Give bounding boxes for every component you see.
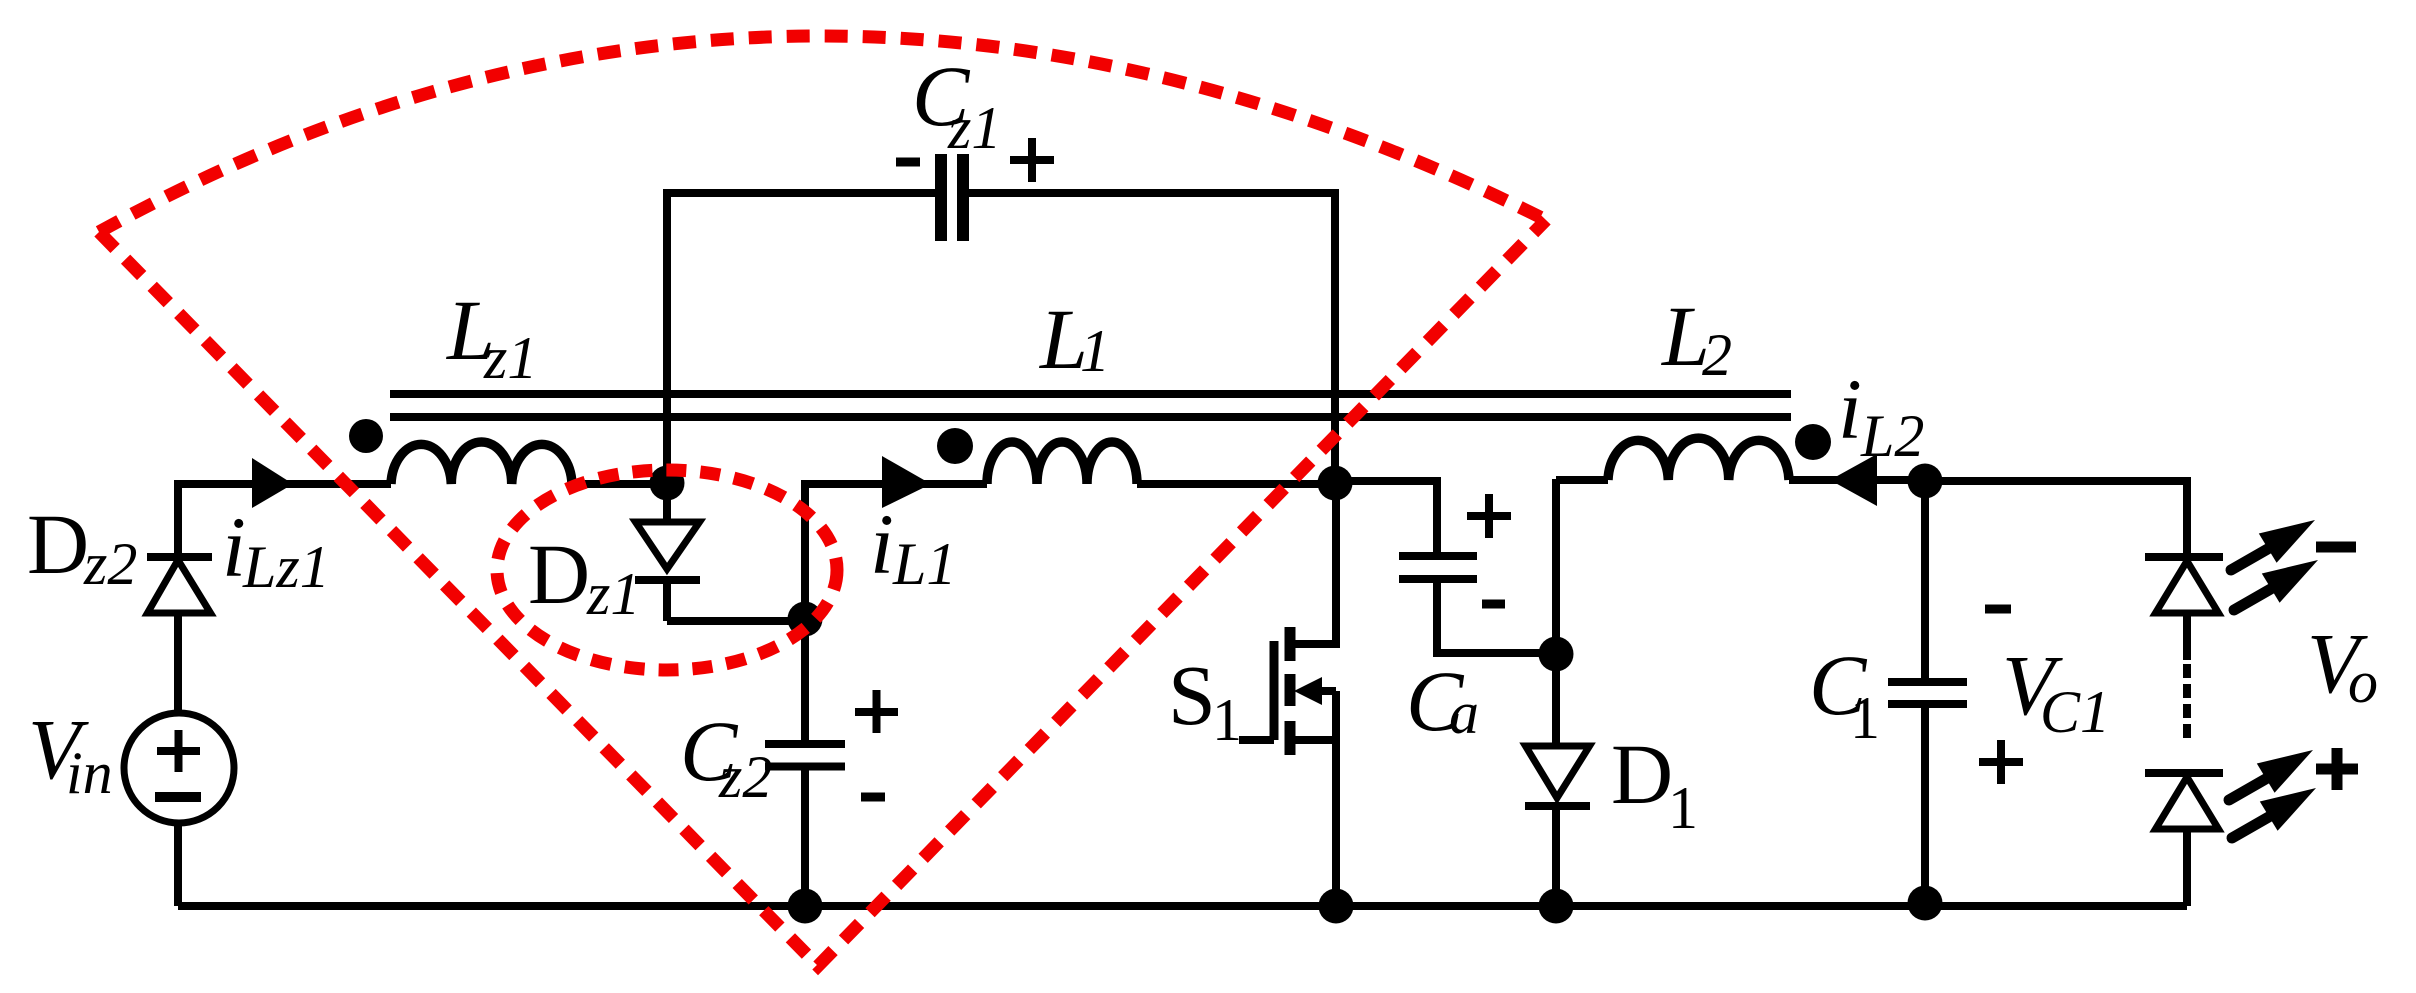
minus sign Ca (1482, 600, 1505, 609)
label iL1 (870, 496, 956, 597)
capacitor Ca (1399, 556, 1556, 653)
dot L1 polarity (937, 428, 973, 464)
inductor L2 winding (1608, 438, 1789, 480)
svg-text:1: 1 (1080, 318, 1110, 384)
plus sign Cz2 (855, 690, 898, 733)
label Dz1 (528, 526, 640, 627)
label Ca (1406, 653, 1479, 749)
node B junction dot (1318, 466, 1353, 501)
node Cz2 bottom junction dot (788, 889, 823, 924)
label Vin (28, 701, 113, 806)
label D1 (1611, 726, 1698, 841)
source Vin (124, 713, 234, 906)
svg-text:i: i (1838, 361, 1862, 457)
node D1 bottom junction dot (1539, 889, 1574, 924)
LED D_led1 (2145, 557, 2223, 660)
red dashed fan V lines (99, 220, 1546, 966)
svg-text:in: in (66, 740, 113, 806)
wire bottom rail (178, 902, 2187, 910)
wire Lz1 to node A (572, 480, 667, 488)
node S1 source junction dot (1319, 889, 1354, 924)
wire Dz1 to Cz2 node (667, 617, 805, 625)
wire iL1 with arrow (805, 480, 987, 488)
capacitor C1 (1888, 481, 1967, 903)
svg-text:S: S (1168, 647, 1216, 743)
wire node A up to Cz1 branch (663, 189, 671, 483)
label S1 (1168, 647, 1242, 753)
dot Lz1 polarity (349, 419, 383, 453)
label VC1 (2002, 637, 2110, 745)
svg-text:z1: z1 (947, 95, 1001, 161)
dot L2 polarity (1795, 424, 1831, 460)
wire dashed LED string (2183, 664, 2191, 738)
wire output top (1925, 481, 2187, 553)
inductor L1 winding (987, 442, 1137, 484)
plus sign Cz1 (1010, 138, 1054, 182)
wire Cz1 right vertical down to node B (1331, 193, 1339, 483)
wire L2 left stub (1556, 476, 1608, 484)
label Cz1 (912, 48, 1001, 161)
svg-text:D: D (27, 496, 89, 592)
diode D1 (1525, 654, 1590, 906)
label L2 (1660, 288, 1732, 388)
red dashed ellipse around Dz1 (497, 470, 837, 670)
arrow iL2 (1830, 454, 1877, 506)
label Cz2 (680, 703, 772, 810)
svg-text:C1: C1 (2040, 679, 2110, 745)
wire left vertical input branch top segment (174, 480, 182, 553)
label Dz2 (27, 496, 137, 597)
label L1 (1038, 291, 1110, 387)
node C junction dot (1908, 464, 1943, 499)
capacitor Cz2 (765, 744, 845, 906)
label C1 (1809, 637, 1880, 751)
capacitor Cz1 (941, 154, 963, 241)
svg-text:1: 1 (1850, 685, 1880, 751)
svg-text:z1: z1 (586, 561, 640, 627)
plus sign Ca (1467, 494, 1511, 538)
label iLz1 (222, 499, 330, 600)
arrow iL1 (882, 456, 931, 508)
wire input top with iLz1 arrow (178, 480, 391, 488)
label iL2 (1838, 361, 1924, 469)
label Vo (2307, 615, 2378, 715)
inductor Lz1 winding (391, 442, 572, 484)
svg-text:1: 1 (1668, 775, 1698, 841)
svg-text:D: D (1611, 726, 1673, 822)
minus sign Cz2 (861, 793, 885, 802)
svg-text:z1: z1 (483, 325, 537, 391)
diode Dz2 (147, 557, 212, 714)
plus sign VC1 (1979, 740, 2023, 784)
label Lz1 (445, 282, 537, 391)
svg-text:2: 2 (1702, 322, 1732, 388)
wire L2 input vertical (1552, 479, 1560, 654)
diode Dz1 (635, 483, 700, 621)
svg-text:1: 1 (1212, 687, 1242, 753)
transistor S1 MOSFET (1239, 483, 1340, 906)
wire Cz2 vertical upper (801, 480, 809, 741)
minus sign Cz1 (896, 158, 920, 167)
svg-text:z2: z2 (718, 744, 772, 810)
node A junction dot (650, 466, 685, 501)
LED2 light arrows (2229, 750, 2316, 838)
svg-text:D: D (528, 526, 590, 622)
wire L1 to node B (1137, 480, 1335, 488)
svg-text:L1: L1 (892, 531, 956, 597)
wire Cz1 branch right (969, 189, 1339, 197)
LED D_led2 (2145, 773, 2223, 906)
red dashed fan arc (99, 36, 1546, 232)
minus sign VC1 (1985, 605, 2011, 614)
node D1 top junction dot (1539, 637, 1574, 672)
svg-text:a: a (1449, 680, 1479, 746)
LED1 light arrows (2231, 520, 2318, 610)
svg-text:i: i (870, 496, 894, 592)
svg-text:o: o (2348, 649, 2378, 715)
minus sign Vo (2316, 542, 2356, 553)
transformer core bars (390, 394, 1791, 417)
node Cz2 top junction dot (788, 602, 823, 637)
plus sign Vo (2316, 748, 2358, 790)
svg-text:Lz1: Lz1 (242, 534, 330, 600)
wire Cz1 branch left (663, 189, 935, 197)
arrow iLz1 (252, 458, 293, 508)
wire node B to Ca branch (1335, 481, 1437, 552)
node C1 bottom junction dot (1908, 886, 1943, 921)
wire L2 to node C with iL2 arrow (1789, 476, 1925, 484)
svg-text:L2: L2 (1860, 403, 1924, 469)
svg-text:z2: z2 (83, 531, 137, 597)
